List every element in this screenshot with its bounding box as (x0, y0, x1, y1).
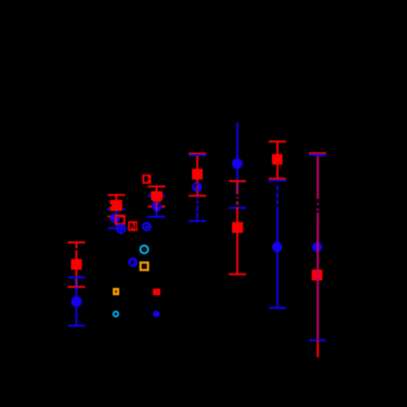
group G6 blue circle marker (272, 242, 282, 252)
group G6 blue dashed stem segments (269, 185, 286, 308)
group G5 blue bottom cap (229, 207, 246, 209)
open orange square marker E (114, 289, 118, 294)
group G5 blue circle marker (232, 158, 243, 169)
blue circle-plus marker J (115, 223, 126, 234)
open blue ring marker L (143, 223, 150, 230)
red glyph square marker K (128, 221, 137, 231)
group G1 blue circle marker (71, 296, 82, 307)
group G7 blue circle marker (312, 242, 322, 252)
open red square marker I (116, 216, 125, 224)
group G1 blue error bar (68, 277, 85, 325)
group G1 black dash on stem (75, 248, 77, 250)
open red square marker A with black hole (142, 174, 151, 183)
group G4 dark red stem over circle (196, 182, 198, 193)
group G7 red lower stem (317, 340, 319, 357)
group G3 red error bar (148, 187, 165, 207)
group G3 dark streak in circle (158, 204, 161, 207)
group G7 black dashes on stem (317, 199, 319, 213)
group G5 red stem (236, 181, 238, 274)
small blue filled circle marker H (153, 311, 160, 318)
blue ring marker C with glyph (129, 259, 136, 266)
group G5 black dashes on stem (236, 194, 238, 207)
group G6 red error bar (269, 142, 286, 179)
group G7 blue top cap (309, 154, 326, 156)
group G7 magenta stem (317, 156, 319, 341)
small red filled square marker F (153, 289, 161, 296)
group G5 red square marker (232, 222, 243, 233)
group G5 magenta overlap segment (236, 182, 238, 207)
group G6 red square marker (272, 154, 283, 165)
group G2 black notch in blob (110, 205, 112, 207)
group G3 blue circle marker (152, 201, 162, 211)
group G7 red square marker (312, 270, 323, 281)
group G5 blue stem (no top cap) (236, 123, 238, 208)
group G7 blue bottom cap (309, 339, 326, 341)
group G4 dark streak in circle (194, 185, 197, 187)
group G4 blue top cap (189, 154, 206, 156)
group G3 purple stem below (156, 207, 158, 212)
group G1 red square marker (71, 259, 82, 270)
small cyan ring marker G (113, 312, 118, 317)
group G3 blob corner notches (151, 200, 153, 202)
group G6 blue top cap (269, 180, 286, 182)
group G4 red square marker (192, 169, 203, 180)
group G2 blue error bar (108, 209, 125, 228)
open cyan ring marker B (140, 246, 148, 254)
group G7 red top cap (309, 152, 326, 154)
group G3 red square blob (151, 191, 163, 201)
group G4 red error bar (189, 154, 206, 196)
group G4 blue circle marker (192, 182, 202, 192)
group G2 blue circle marker (110, 213, 120, 223)
group G3 blue error bar (148, 196, 165, 217)
group G3 red stem over circle (156, 202, 158, 207)
group G2 red error bar (108, 195, 125, 217)
open orange square marker D (141, 263, 149, 270)
group G5 red caps (229, 181, 246, 274)
group G1 purple overlap segment (75, 278, 77, 287)
group G1 red error bar (68, 242, 85, 287)
group G2 red square blob (two overlapped squares) (110, 200, 122, 211)
group G4 blue dashed lower stem (189, 196, 206, 221)
